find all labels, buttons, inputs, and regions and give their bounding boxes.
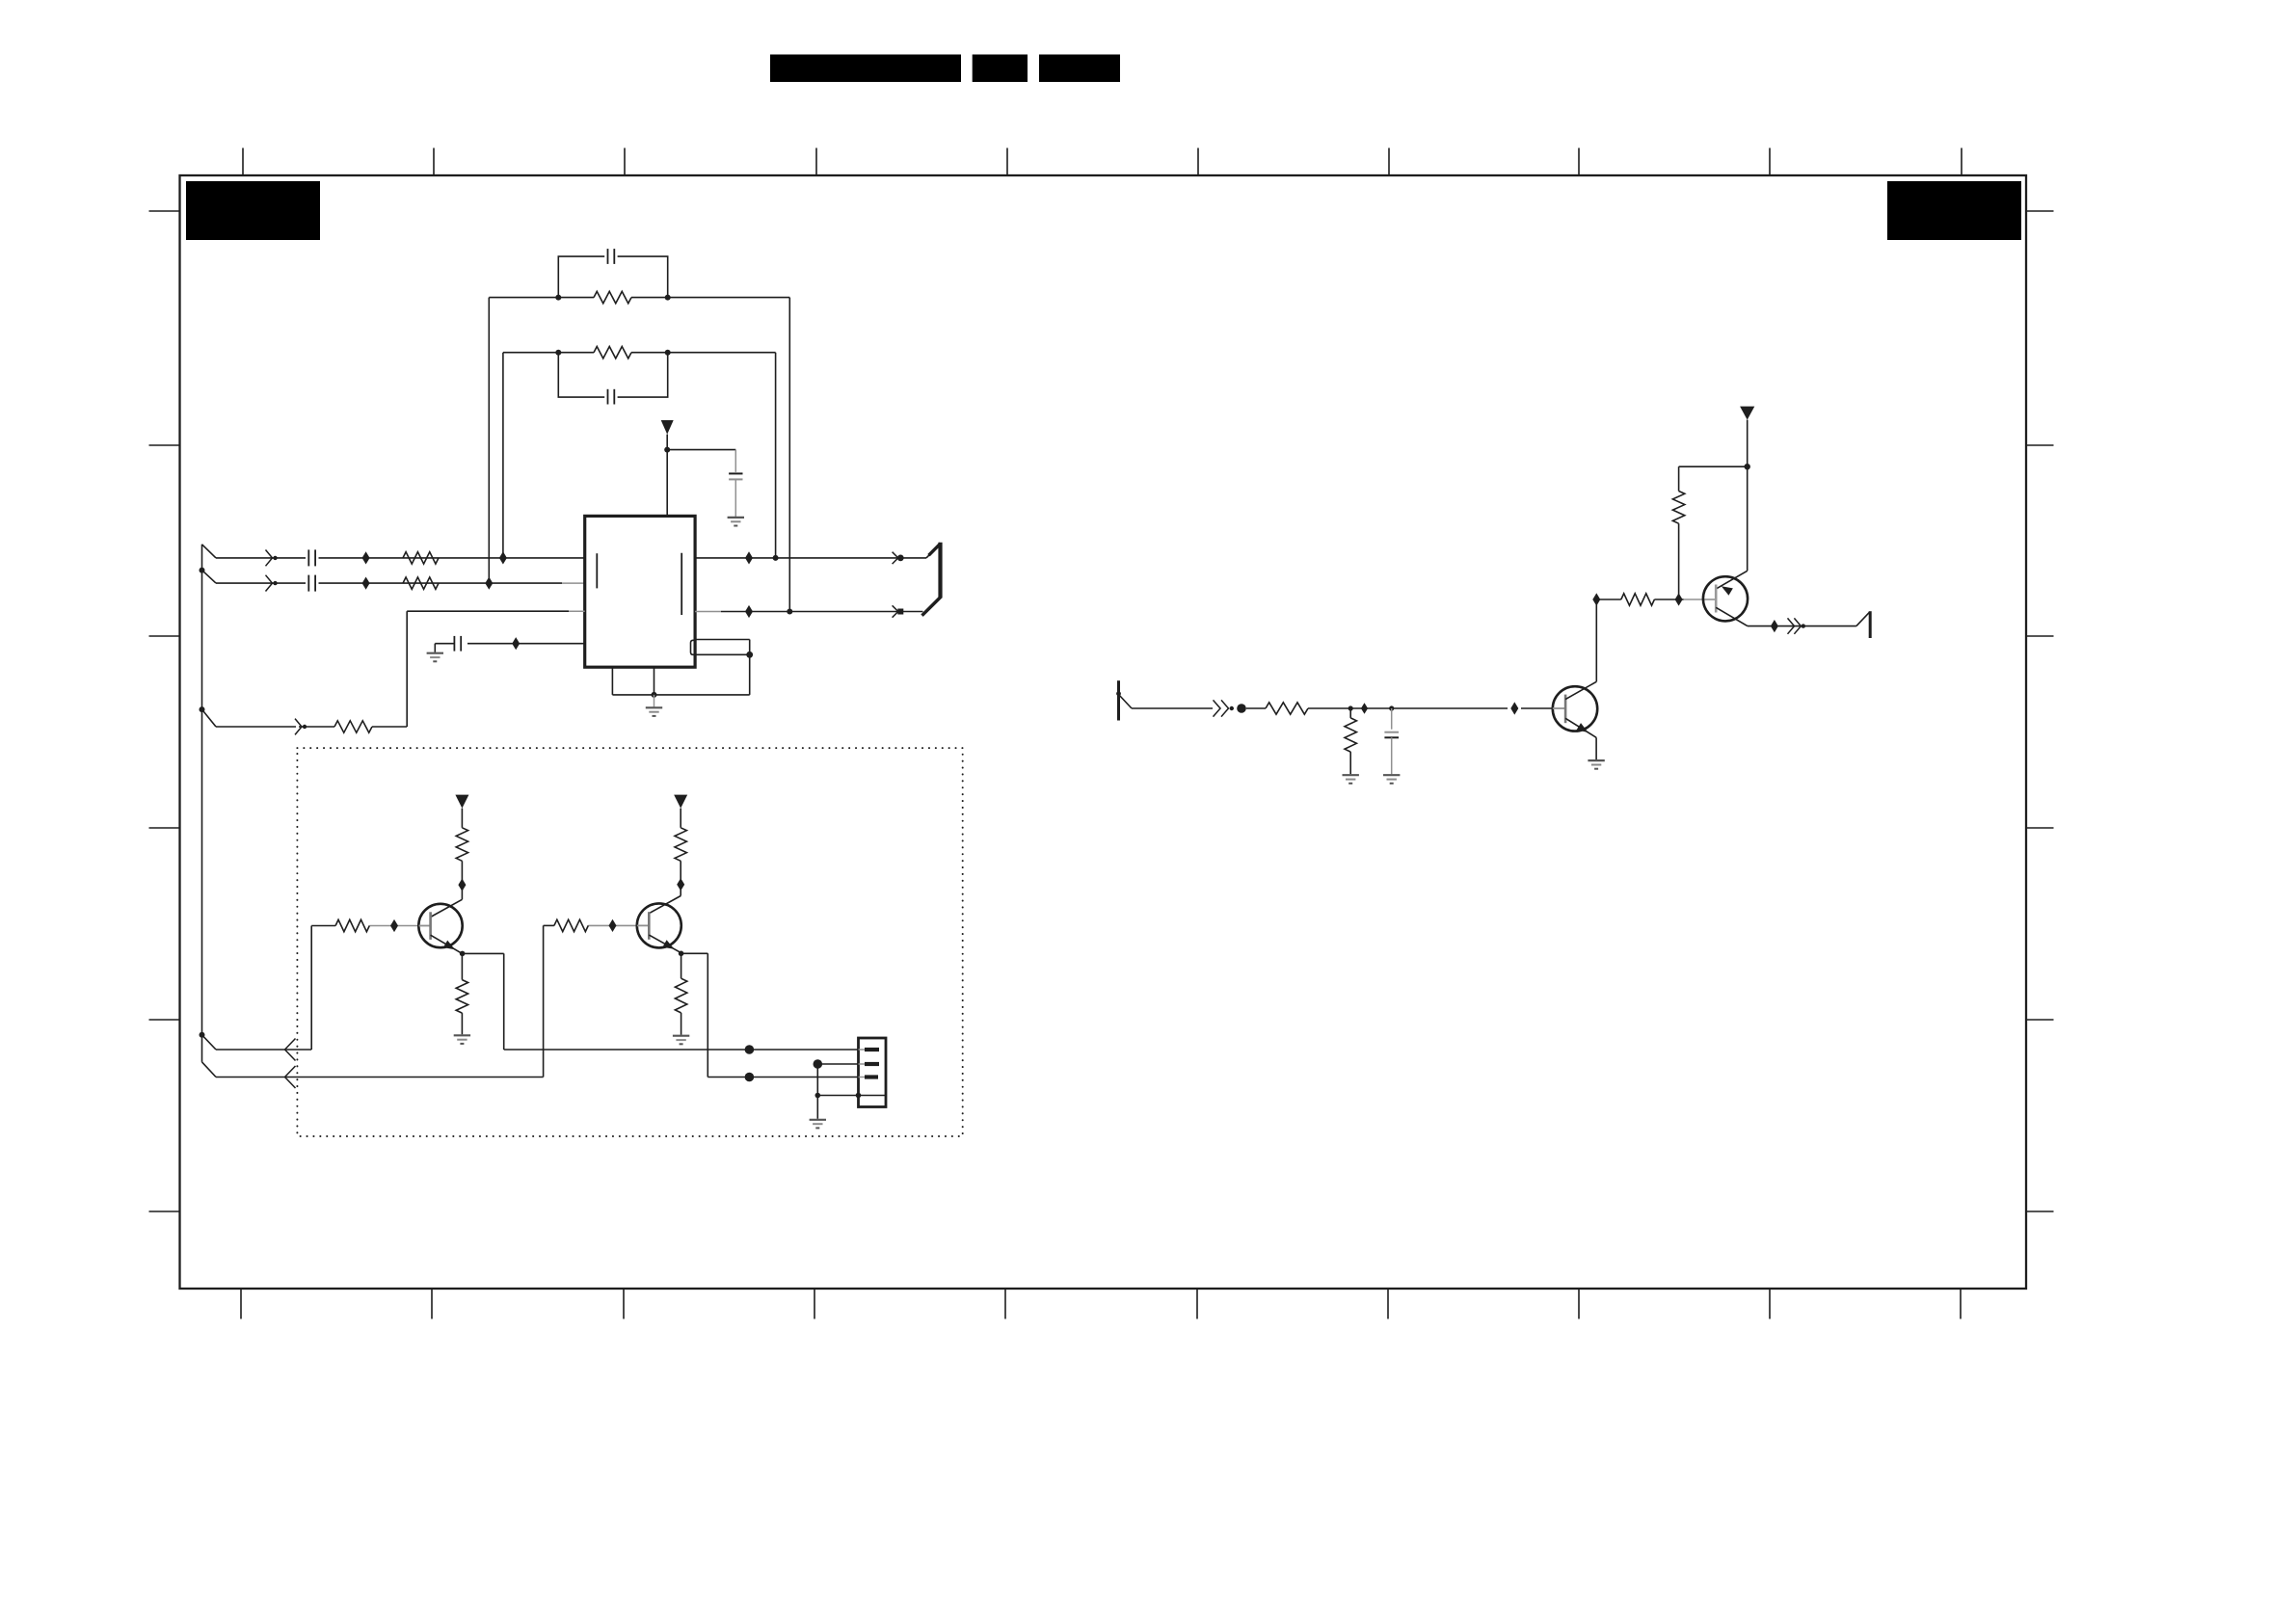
node Q1c diamond xyxy=(1592,593,1600,605)
node Q3 base diamond xyxy=(390,919,398,932)
wire Q2 emitter feed xyxy=(1716,466,1748,589)
node bus-row1 bend xyxy=(202,545,217,558)
wire input bus xyxy=(201,545,203,1062)
transistor Q4 NPN xyxy=(637,903,681,952)
sheet label box top-right xyxy=(1887,181,2021,240)
U1 pin mark right xyxy=(681,553,682,615)
resistor R4 xyxy=(594,347,631,359)
wire feedback2 left xyxy=(502,353,504,558)
wire feedback1-out2 xyxy=(788,298,790,612)
wire VQ4-R14 xyxy=(680,809,681,828)
wire Q4e branch xyxy=(681,953,708,1077)
resistor R12 xyxy=(456,953,467,1034)
node R7 junction xyxy=(1348,705,1353,710)
wire bus2 left xyxy=(216,1077,544,1078)
resistor R11 xyxy=(456,828,467,862)
node row4 diamond xyxy=(512,637,520,650)
resistor R10 xyxy=(335,919,369,931)
wire pin2-gnd xyxy=(816,1064,818,1119)
node supply U1 xyxy=(664,447,670,517)
resistor R7 xyxy=(1345,708,1356,774)
wire supply-C5 xyxy=(667,450,735,472)
node U1 gnd xyxy=(652,692,657,698)
wire J2-R6 xyxy=(1132,707,1213,709)
node row2 diamond xyxy=(362,577,370,590)
U1 pin mark left xyxy=(596,553,598,588)
resistor R2 xyxy=(403,577,439,589)
wire row4 xyxy=(435,644,584,652)
wire Q4 base drop xyxy=(543,925,545,1077)
ground C5 xyxy=(728,518,744,526)
connector CN1 bracket xyxy=(922,543,941,616)
connector J1 body xyxy=(859,1038,887,1107)
wire C7-gnd xyxy=(1391,737,1393,774)
arrow chevrons out xyxy=(1788,618,1806,633)
wire shield xyxy=(817,1095,886,1097)
wire bus2 xyxy=(707,1077,858,1078)
node R4 right xyxy=(665,350,671,356)
arrow row1 xyxy=(266,550,278,567)
node R3 right xyxy=(665,295,671,301)
wire feedback1 row xyxy=(489,297,789,299)
capacitor C7 xyxy=(1384,732,1399,738)
wire bus1 left xyxy=(216,1049,311,1051)
wire Q3 base xyxy=(311,925,418,927)
U1 pin5 notch xyxy=(691,640,695,654)
node Q1 base diamond xyxy=(1510,702,1518,714)
node row1 diamond xyxy=(362,551,370,564)
resistor R1 xyxy=(403,552,439,564)
power V+ Q3 xyxy=(455,795,468,809)
wire feedback2-out1 xyxy=(775,353,777,558)
node Q4 emitter xyxy=(679,951,684,957)
node Q3c diamond xyxy=(458,879,466,891)
node bus-out1 xyxy=(200,1032,217,1050)
node out diamond xyxy=(1771,620,1778,632)
wire bus1 xyxy=(504,1049,859,1051)
wire feedback2 row xyxy=(503,352,776,354)
wire U1 gnd loop xyxy=(612,640,749,695)
wire Q3e branch xyxy=(463,953,504,1050)
ground C7 xyxy=(1383,775,1400,784)
wire row2 IN2 xyxy=(216,582,585,584)
arrow bus2 xyxy=(285,1066,296,1088)
arrow out2 xyxy=(893,605,904,617)
power V+ U1 xyxy=(661,420,674,450)
op-amp U1 IC body xyxy=(585,516,695,667)
capacitor C4 loop xyxy=(558,353,667,397)
capacitor C1 xyxy=(308,549,315,566)
wire R14-Q4c xyxy=(649,861,681,913)
wire Q1 emitter xyxy=(1595,737,1597,759)
wire C7 lead xyxy=(1391,708,1393,730)
node in big dot xyxy=(1237,704,1246,713)
capacitor C5 xyxy=(729,473,742,479)
resistor R15 xyxy=(675,953,686,1034)
wire out2 xyxy=(695,611,922,613)
node out1 diamond xyxy=(745,551,753,564)
transistor Q2 PNP xyxy=(1703,576,1748,625)
wire gnd stub xyxy=(654,695,655,707)
power V+ right xyxy=(1740,407,1754,467)
connector J1 pin2 xyxy=(859,1062,880,1066)
power V+ Q4 xyxy=(674,795,687,809)
wire out right xyxy=(1748,625,1856,627)
wire Q1 collector xyxy=(1595,599,1597,681)
arrow chevrons in xyxy=(1214,700,1235,716)
node out1 junction xyxy=(773,555,779,561)
ground Q3e xyxy=(454,1035,470,1044)
terminal J3 output xyxy=(1856,611,1870,638)
node C7 junction xyxy=(1389,705,1394,710)
wire Q4 base xyxy=(544,924,637,926)
wire row3 VOL xyxy=(216,611,585,727)
arrow row2 xyxy=(266,575,278,592)
title block redaction box 3 xyxy=(1039,55,1120,83)
capacitor C6 xyxy=(454,636,461,652)
connector J1 pin3 xyxy=(859,1075,879,1078)
ground R7 xyxy=(1343,775,1359,784)
node R3 left xyxy=(555,295,561,301)
resistor R8 xyxy=(1621,594,1655,605)
wire U1 gnd pin xyxy=(654,667,655,695)
wire R6-Q1 xyxy=(1308,707,1553,709)
arrow bus1 xyxy=(285,1039,296,1061)
arrow out1 xyxy=(893,552,904,564)
ground Q4e xyxy=(673,1036,689,1045)
wire Q3 base drop xyxy=(310,926,312,1051)
wire VQ3-R11 xyxy=(461,809,463,828)
title block redaction box 1 xyxy=(770,55,961,83)
resistor R3 xyxy=(594,291,631,303)
node bus-row3 xyxy=(200,706,217,727)
node out2 diamond xyxy=(745,605,753,618)
wire dot-R6 xyxy=(1246,707,1266,709)
capacitor C3 xyxy=(608,249,615,264)
transistor Q1 NPN xyxy=(1553,681,1597,737)
resistor R13 xyxy=(554,919,588,931)
wire C5-gnd xyxy=(734,479,736,518)
dashed enclosure xyxy=(297,748,962,1136)
ground connector xyxy=(810,1120,826,1129)
node feedback1-row2 diamond xyxy=(485,577,493,590)
capacitor C2 xyxy=(308,575,315,592)
wire R11-Q3c xyxy=(431,861,463,917)
capacitor C3 loop xyxy=(558,256,667,298)
node base diamond A xyxy=(1361,703,1368,714)
arrow row3 xyxy=(295,719,307,735)
wire Q1c-R8 xyxy=(1596,599,1621,600)
resistor R6 xyxy=(1266,703,1308,714)
node shield dot2 xyxy=(856,1093,862,1099)
connector J1 pin1 xyxy=(859,1048,880,1051)
node Q4c diamond xyxy=(677,878,684,891)
node Q2 base diamond xyxy=(1675,593,1683,605)
wire feedback1 left xyxy=(488,298,490,583)
terminal J2 input xyxy=(1116,680,1132,720)
node bus2 dot xyxy=(745,1073,755,1082)
wire out1 xyxy=(695,557,926,559)
node shield dot1 xyxy=(815,1093,821,1099)
title block redaction box 2 xyxy=(973,55,1028,83)
wire pin2 xyxy=(817,1063,858,1065)
node out2 junction xyxy=(787,609,792,615)
node pin2 dot xyxy=(814,1059,823,1069)
node bus1 dot xyxy=(745,1045,755,1054)
ground C6 xyxy=(427,653,443,662)
wire row1 IN1 xyxy=(216,557,585,559)
capacitor C4 xyxy=(608,389,615,405)
node feedback2-row1 diamond xyxy=(499,551,507,564)
transistor Q3 NPN xyxy=(418,904,462,954)
ground U1 xyxy=(646,707,662,716)
node R4 left xyxy=(555,350,561,356)
node Q3 emitter xyxy=(460,951,466,957)
resistor R5 xyxy=(334,721,372,732)
node bus-out2 bend xyxy=(202,1062,217,1078)
node supply right xyxy=(1745,464,1750,469)
node loop upper xyxy=(746,652,753,658)
resistor R14 xyxy=(675,828,686,862)
sheet label box top-left xyxy=(186,181,320,240)
resistor R9 xyxy=(1672,466,1684,599)
node Q4 base diamond xyxy=(609,919,617,932)
node bus-row2 xyxy=(200,568,217,584)
ground Q1 xyxy=(1588,760,1604,769)
wire supply-R9 xyxy=(1679,466,1748,467)
wire R8-Q2b xyxy=(1654,599,1716,600)
